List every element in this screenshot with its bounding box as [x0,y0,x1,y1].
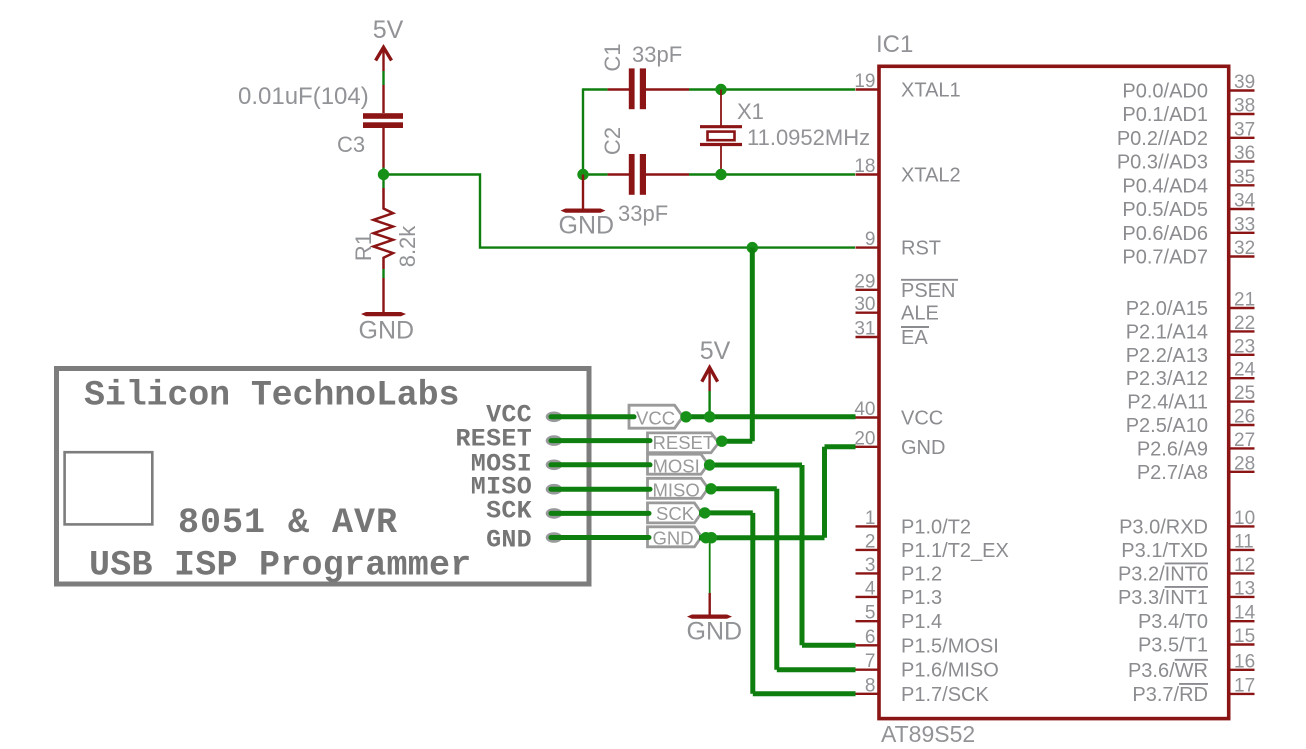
svg-text:8.2k: 8.2k [395,225,420,268]
wire MOSI to IC pin 6 [802,643,856,648]
svg-text:39: 39 [1234,72,1255,93]
pin 35 stub [1229,184,1255,186]
svg-text:RESET: RESET [653,432,715,453]
node MISO flag-tip junction [705,483,716,494]
svg-text:P1.4: P1.4 [901,611,942,633]
svg-text:P0.3//AD3: P0.3//AD3 [1117,152,1208,174]
svg-text:P1.7/SCK: P1.7/SCK [901,684,989,706]
node GND flag-tip junction A [700,532,711,543]
svg-text:P3.1/TXD: P3.1/TXD [1121,540,1208,562]
svg-text:P3.5/T1: P3.5/T1 [1138,635,1208,657]
svg-text:MOSI: MOSI [653,456,700,477]
wire SCK to IC pin 8 [753,691,856,696]
svg-text:P1.2: P1.2 [901,563,942,585]
supply 5V symbol (VCC) [700,337,731,391]
svg-text:29: 29 [854,271,875,292]
svg-text:GND: GND [653,528,694,549]
node RST junction [747,242,758,253]
pin 17 stub [1229,693,1255,695]
svg-text:4: 4 [865,578,876,599]
svg-text:P2.1/A14: P2.1/A14 [1126,321,1208,343]
svg-text:13: 13 [1234,578,1255,599]
svg-text:40: 40 [854,399,875,420]
svg-text:VCC: VCC [636,408,675,429]
svg-text:RST: RST [901,238,941,260]
wire MOSI flag to riser [706,463,802,468]
wire R1 to GND [382,269,384,312]
pin 38 stub [1229,113,1255,115]
wire MOSI riser [800,465,805,645]
wire GND flag to riser [699,535,825,540]
svg-text:P0.6/AD6: P0.6/AD6 [1122,223,1208,245]
wire GND riser to pin20 row [822,447,827,538]
svg-text:C3: C3 [337,132,365,157]
wire VCC pad to flag [551,414,634,419]
wire GND flag to ground symbol [709,543,711,593]
pin 40 stub [856,416,880,418]
svg-text:P3.3/INT1: P3.3/INT1 [1118,587,1208,609]
pin 15 stub [1229,643,1255,645]
wire C2 to IC XTAL2 [689,173,855,175]
svg-text:SCK: SCK [486,497,532,526]
svg-text:5V: 5V [700,337,731,365]
svg-text:28: 28 [1234,453,1255,474]
pin 7 stub [856,669,880,671]
svg-text:38: 38 [1234,96,1255,117]
svg-text:15: 15 [1234,626,1255,647]
svg-text:25: 25 [1234,383,1255,404]
wire MISO pad to flag [551,487,650,492]
svg-text:10: 10 [1234,508,1255,529]
pad GND [546,532,563,543]
pin 12 stub [1229,572,1255,574]
pin 6 stub [856,644,880,646]
svg-text:11.0952MHz: 11.0952MHz [747,125,870,150]
svg-text:P1.6/MISO: P1.6/MISO [901,660,999,682]
pin 25 stub [1229,400,1255,402]
svg-text:31: 31 [854,319,875,340]
node VCC flag-tip junction [680,411,691,422]
overline PSEN [901,279,958,281]
wire C2 row left [583,173,608,175]
svg-text:P1.3: P1.3 [901,587,942,609]
pin 26 stub [1229,424,1255,426]
svg-text:P2.3/A12: P2.3/A12 [1126,368,1208,390]
overline INT0 [1165,562,1208,564]
svg-text:SCK: SCK [656,503,695,524]
svg-text:20: 20 [854,428,875,449]
pad MOSI [546,460,563,471]
wire XTAL1 net (C1 left leg riser) [582,88,584,174]
svg-text:23: 23 [1234,336,1255,357]
node RESET flag-tip junction [716,436,727,447]
wire SCK pad to flag [551,511,649,516]
svg-text:P2.2/A13: P2.2/A13 [1126,345,1208,367]
wire SCK flag to riser [699,510,753,515]
capacitor C3 [363,85,403,168]
ground symbol (crystal) [559,175,615,240]
pin 28 stub [1229,471,1255,473]
svg-text:Silicon TechnoLabs: Silicon TechnoLabs [84,376,459,416]
svg-text:3: 3 [865,555,876,576]
svg-text:P2.5/A10: P2.5/A10 [1126,415,1208,437]
svg-text:MISO: MISO [653,480,700,501]
svg-text:16: 16 [1234,651,1255,672]
node XTAL1 junction [715,84,726,95]
wire GND pad to flag [551,535,649,540]
pin 23 stub [1229,354,1255,356]
svg-text:24: 24 [1234,360,1256,381]
svg-text:GND: GND [486,525,532,554]
svg-text:GND: GND [687,618,743,646]
net flag MISO [648,478,709,498]
node SCK flag-tip junction [699,507,710,518]
svg-text:P1.0/T2: P1.0/T2 [901,516,971,538]
wire MISO to IC pin 7 [777,667,856,672]
svg-text:33pF: 33pF [618,201,668,226]
svg-text:2: 2 [865,531,876,552]
svg-text:VCC: VCC [901,408,943,430]
svg-text:P0.5/AD5: P0.5/AD5 [1122,199,1208,221]
svg-text:0.01uF(104): 0.01uF(104) [238,83,369,110]
svg-text:36: 36 [1234,143,1255,164]
wire C3 to node A [382,168,384,189]
pin 14 stub [1229,620,1255,622]
wire MISO flag to riser [706,486,777,491]
ground symbol (R1) [359,312,415,345]
net flag RESET [648,433,719,453]
pin 32 stub [1229,255,1255,257]
svg-text:33pF: 33pF [632,42,682,67]
pin 2 stub [856,549,880,551]
pin 37 stub [1229,137,1255,139]
svg-text:XTAL1: XTAL1 [901,80,961,102]
svg-text:ALE: ALE [901,303,939,325]
overline EA [901,326,929,328]
pin 3 stub [856,572,880,574]
svg-text:9: 9 [865,229,876,250]
svg-text:IC1: IC1 [876,31,913,58]
svg-text:17: 17 [1234,675,1255,696]
pad RESET [546,435,563,446]
svg-text:27: 27 [1234,430,1255,451]
svg-text:P0.2//AD2: P0.2//AD2 [1117,128,1208,150]
svg-text:30: 30 [854,294,875,315]
svg-text:33: 33 [1234,214,1255,235]
node GND flag-tip junction B [706,532,717,543]
wire RESET pad to flag [551,438,650,443]
pin 19 stub [856,88,880,90]
svg-text:35: 35 [1234,167,1255,188]
svg-text:34: 34 [1234,191,1256,212]
supply 5V symbol (C3 branch) [373,16,404,71]
svg-text:P3.7/RD: P3.7/RD [1132,684,1208,706]
node C2-GND junction [577,169,588,180]
svg-text:26: 26 [1234,407,1255,428]
svg-text:P2.0/A15: P2.0/A15 [1126,298,1208,320]
wire 5V to C3 [382,71,384,85]
node XTAL2 junction [715,169,726,180]
svg-text:PSEN: PSEN [901,280,955,302]
net flag GND [648,527,702,547]
svg-text:GND: GND [359,317,415,345]
svg-text:C1: C1 [600,43,625,71]
pad SCK [546,508,563,519]
overline INT1 [1165,586,1208,588]
wire RESET riser to RST row [750,248,755,442]
node A junction [378,169,389,180]
pin 20 stub [856,446,880,448]
pin 9 stub [856,246,880,248]
svg-text:22: 22 [1234,313,1255,334]
svg-text:GND: GND [901,437,945,459]
pin 22 stub [1229,330,1255,332]
pin 29 stub [856,289,880,291]
USB ISP programmer box outline [57,369,590,585]
pin 31 stub [856,336,880,338]
svg-text:P2.7/A8: P2.7/A8 [1137,462,1208,484]
pin 5 stub [856,620,880,622]
svg-text:X1: X1 [737,99,764,124]
svg-text:C2: C2 [600,127,625,155]
wire C1 row left [583,88,608,90]
svg-text:P1.5/MOSI: P1.5/MOSI [901,635,999,657]
overline WR [1175,659,1208,661]
pin 4 stub [856,596,880,598]
svg-text:P3.2/INT0: P3.2/INT0 [1118,563,1208,585]
svg-text:GND: GND [559,212,615,240]
svg-text:32: 32 [1234,238,1255,259]
pad MISO [546,484,563,495]
node MOSI flag-tip junction [704,459,715,470]
crystal X1 [700,90,742,175]
net flag VCC [629,405,683,428]
ground symbol (ISP GND) [687,593,743,646]
svg-text:R1: R1 [351,233,376,261]
svg-text:37: 37 [1234,119,1255,140]
svg-text:P3.0/RXD: P3.0/RXD [1119,516,1208,538]
pin 21 stub [1229,307,1255,309]
wire VCC flag to IC pin 40 [683,414,856,419]
wire MOSI pad to flag [551,462,650,467]
pin 13 stub [1229,596,1255,598]
svg-text:5V: 5V [373,16,404,44]
pin 24 stub [1229,377,1255,379]
pin 36 stub [1229,160,1255,162]
svg-text:19: 19 [854,71,875,92]
svg-text:P0.4/AD4: P0.4/AD4 [1122,175,1208,197]
net flag MOSI [648,454,709,474]
node VCC 5V junction [704,411,715,422]
pin 16 stub [1229,669,1255,671]
wire C1 to IC XTAL1 [689,88,855,90]
resistor R1 [374,188,394,269]
svg-text:8051 & AVR: 8051 & AVR [178,503,398,543]
pin 30 stub [856,312,880,314]
capacitor C2 [608,154,689,195]
svg-text:6: 6 [865,627,876,648]
svg-text:P2.4/A11: P2.4/A11 [1127,392,1208,414]
svg-text:P3.6/WR: P3.6/WR [1128,660,1208,682]
wire GND to IC pin 20 [825,444,856,449]
svg-text:P1.1/T2_EX: P1.1/T2_EX [901,540,1009,562]
svg-text:8: 8 [865,675,876,696]
wire 5V to VCC net [708,391,710,417]
IC U1 AT89S52 body [879,66,1229,718]
svg-text:P0.1/AD1: P0.1/AD1 [1122,104,1208,126]
pin 27 stub [1229,447,1255,449]
USB connector rectangle [65,452,153,524]
wire RESET flag to riser [719,439,752,444]
svg-text:P0.0/AD0: P0.0/AD0 [1122,81,1208,103]
wire node A to RST (net RST) [389,175,855,248]
svg-text:EA: EA [901,327,928,349]
pad VCC [546,412,563,423]
pin 18 stub [856,173,880,175]
pin 8 stub [856,693,880,695]
capacitor C1 [608,68,689,109]
wire SCK riser [750,513,755,694]
svg-text:USB ISP Programmer: USB ISP Programmer [89,546,472,586]
pin 33 stub [1229,232,1255,234]
pin 34 stub [1229,208,1255,210]
wire MISO riser [774,489,779,670]
net flag SCK [648,503,702,523]
svg-text:AT89S52: AT89S52 [881,721,975,747]
svg-text:21: 21 [1234,290,1255,311]
svg-text:18: 18 [854,156,875,177]
svg-text:1: 1 [865,508,876,529]
svg-text:14: 14 [1234,603,1256,624]
svg-text:P3.4/T0: P3.4/T0 [1138,611,1208,633]
svg-text:7: 7 [865,651,876,672]
overline RD [1179,683,1208,685]
svg-text:P2.6/A9: P2.6/A9 [1137,438,1208,460]
pin 10 stub [1229,525,1255,527]
pin 39 stub [1229,89,1255,91]
pin 11 stub [1229,549,1255,551]
svg-text:12: 12 [1234,555,1255,576]
svg-text:5: 5 [865,603,876,624]
svg-text:P0.7/AD7: P0.7/AD7 [1122,247,1208,269]
svg-text:XTAL2: XTAL2 [901,165,961,187]
svg-text:11: 11 [1234,531,1254,552]
pin 1 stub [856,525,880,527]
